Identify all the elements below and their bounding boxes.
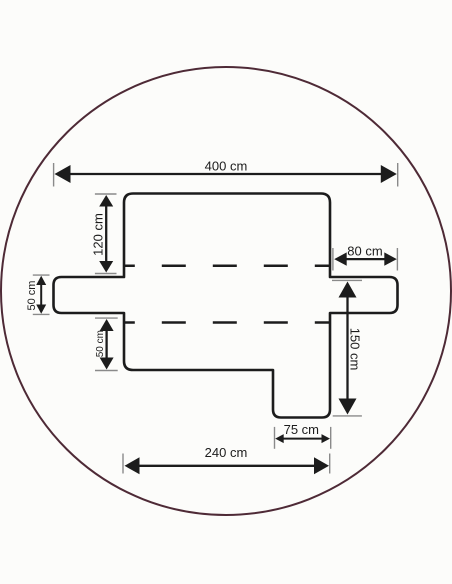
dimension 120 cm	[91, 194, 117, 274]
svg-text:240 cm: 240 cm	[205, 445, 248, 460]
safety zone circle	[1, 67, 451, 515]
dimension 240 cm	[123, 445, 330, 474]
dimension 50 cm lower	[95, 318, 118, 370]
svg-text:80 cm: 80 cm	[347, 244, 382, 259]
dimension 400 cm	[54, 159, 398, 187]
dimension 75 cm	[275, 422, 331, 449]
svg-text:120 cm: 120 cm	[91, 213, 106, 256]
svg-text:50 cm: 50 cm	[26, 281, 38, 311]
footprint outline	[54, 194, 398, 418]
dimension 150 cm	[332, 280, 363, 416]
svg-text:150 cm: 150 cm	[348, 328, 363, 371]
dashed line lower	[125, 321, 329, 324]
svg-text:75 cm: 75 cm	[284, 422, 319, 437]
dimension 80 cm	[333, 244, 398, 271]
svg-text:50 cm: 50 cm	[95, 330, 106, 357]
dimension 50 cm left	[26, 275, 50, 314]
dashed line upper	[125, 265, 329, 268]
svg-text:400 cm: 400 cm	[205, 159, 248, 174]
